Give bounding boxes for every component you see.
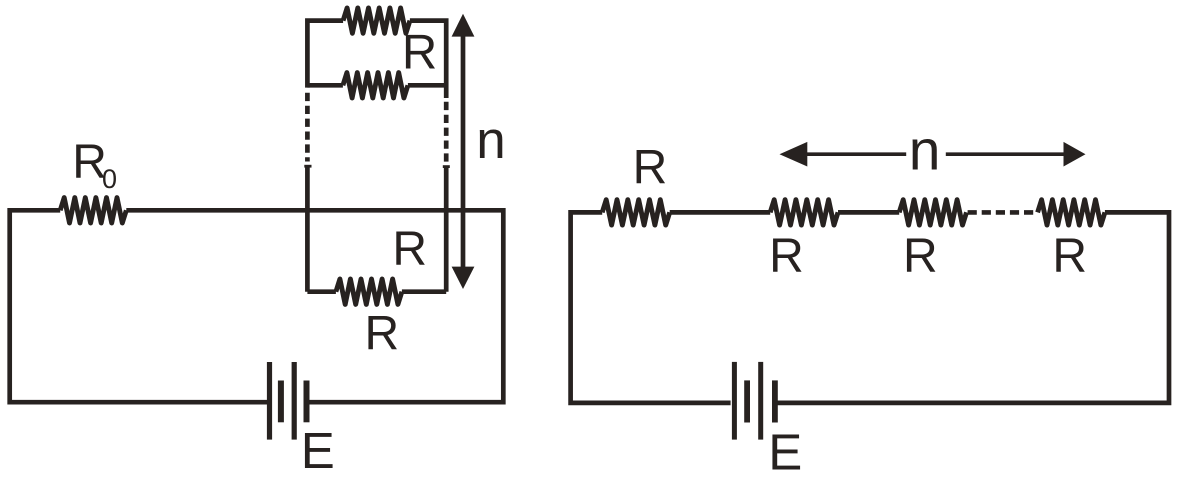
arrow n-count vertical shaft xyxy=(461,34,466,270)
resistor R fourth series xyxy=(1038,200,1105,225)
svg-text:R: R xyxy=(402,26,437,80)
wire parallel-bank left rail upper + top wire left lead xyxy=(307,21,343,88)
arrow right shaft (horizontal n arrow) xyxy=(946,152,1066,156)
wire top wire right lead + right rail upper xyxy=(410,21,446,98)
svg-text:R: R xyxy=(392,223,427,276)
resistor R (second of parallel bank) xyxy=(343,73,408,98)
wire between R1 and R2 xyxy=(670,210,771,215)
svg-text:R0: R0 xyxy=(72,136,117,194)
svg-text:n: n xyxy=(476,111,505,170)
arrowhead left (horizontal n arrow) xyxy=(780,142,808,167)
wire right-loop bottom-left, left side, top lead xyxy=(571,212,731,403)
wire bottom-bank left lead xyxy=(307,289,336,294)
svg-text:R: R xyxy=(365,307,400,360)
svg-text:n: n xyxy=(909,118,941,182)
wire right rail lower solid (crosses main wire) xyxy=(444,167,449,292)
arrowhead down (vertical n arrow) xyxy=(452,267,475,289)
wire second-row left lead xyxy=(307,83,343,88)
resistor R (top of parallel bank) xyxy=(343,8,410,33)
wire dashed continuation between R3 and R4 xyxy=(968,210,1034,215)
svg-text:E: E xyxy=(768,423,802,480)
wire between R2 and R3 xyxy=(838,210,899,215)
arrowhead up (vertical n arrow) xyxy=(452,14,475,37)
svg-text:R: R xyxy=(633,141,668,194)
svg-text:R: R xyxy=(1052,230,1087,283)
svg-text:E: E xyxy=(301,422,335,479)
arrowhead right (horizontal n arrow) xyxy=(1064,142,1086,167)
wire top-right lead, right side, bottom-right xyxy=(778,212,1170,403)
arrow left shaft (horizontal n arrow) xyxy=(806,152,907,156)
resistor R third series xyxy=(899,200,966,225)
wire left-loop bottom-left, left side, top lead to R0 xyxy=(10,210,267,402)
resistor R first series xyxy=(602,200,670,225)
wire dashed right rail continuation xyxy=(444,102,449,162)
battery E (right circuit) plates xyxy=(732,362,737,440)
wire dashed left rail continuation xyxy=(305,93,310,162)
svg-text:R: R xyxy=(769,230,804,283)
wire bottom-bank right lead xyxy=(402,289,446,294)
resistor R (bottom of parallel bank) xyxy=(336,279,402,304)
wire left rail lower solid (crosses main wire) xyxy=(305,167,310,292)
svg-text:R: R xyxy=(903,230,938,283)
resistor R second series xyxy=(770,200,838,225)
wire second-row right lead xyxy=(408,83,446,88)
resistor R0 xyxy=(60,198,126,223)
wire left-loop top, right side, bottom-right to battery xyxy=(126,210,503,402)
battery E (left circuit) plates xyxy=(267,362,310,440)
